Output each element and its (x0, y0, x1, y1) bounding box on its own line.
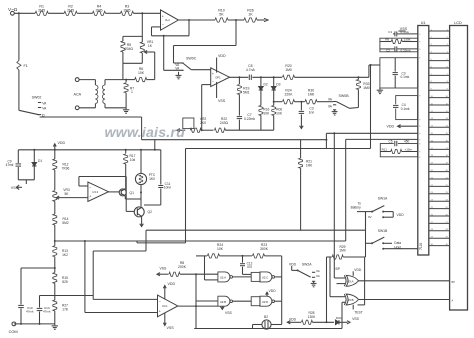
svg-text:VA: VA (316, 274, 320, 278)
svg-text:VSS: VSS (352, 317, 360, 321)
svg-text:200K: 200K (178, 265, 187, 269)
svg-text:TEST: TEST (354, 310, 362, 314)
svg-text:Q2: Q2 (148, 210, 153, 214)
svg-text:U2:D: U2:D (262, 300, 269, 304)
svg-text:U2:B: U2:B (220, 300, 226, 304)
svg-text:VDD: VDD (289, 262, 297, 266)
svg-text:U3:B: U3:B (347, 298, 353, 302)
svg-text:Q1: Q1 (130, 191, 135, 195)
svg-text:1M0: 1M0 (306, 163, 313, 167)
svg-text:0.1mk: 0.1mk (401, 107, 410, 111)
svg-text:C1: C1 (388, 30, 392, 34)
svg-text:D2: D2 (264, 83, 268, 87)
svg-text:0.1mk: 0.1mk (401, 30, 410, 34)
svg-text:0.1mk: 0.1mk (401, 75, 410, 79)
svg-text:SW2A: SW2A (302, 262, 312, 266)
svg-text:V~Ω: V~Ω (8, 7, 18, 12)
svg-text:1M0: 1M0 (308, 92, 315, 96)
svg-text:300K: 300K (260, 247, 269, 251)
svg-text:5K: 5K (219, 12, 224, 16)
svg-text:1: 1 (131, 90, 133, 94)
svg-text:VSS: VSS (225, 311, 233, 315)
svg-text:10K: 10K (263, 111, 270, 115)
svg-text:220K: 220K (285, 92, 294, 96)
svg-text:1nn: 1nn (309, 110, 315, 114)
svg-text:10nn: 10nn (164, 186, 172, 190)
svg-text:+: + (212, 72, 214, 76)
svg-text:U1: U1 (421, 21, 426, 25)
svg-text:BP: BP (452, 280, 456, 284)
svg-text:47mk: 47mk (26, 310, 34, 314)
svg-text:4.7nA: 4.7nA (246, 68, 256, 72)
svg-text:R9: R9 (385, 38, 389, 42)
svg-text:+: + (159, 309, 161, 313)
svg-text:OP1: OP1 (215, 75, 221, 79)
svg-text:VDD: VDD (168, 282, 176, 286)
svg-text:D3: D3 (276, 83, 280, 87)
svg-text:+: + (162, 14, 164, 18)
svg-text:1K2: 1K2 (62, 253, 68, 257)
svg-text:www.iais.ru: www.iais.ru (105, 125, 186, 141)
svg-text:F1: F1 (24, 64, 28, 68)
svg-text:−: − (212, 80, 214, 84)
svg-text:VDD: VDD (218, 54, 226, 58)
svg-text:+: + (89, 195, 91, 199)
svg-text:1M0: 1M0 (339, 249, 346, 253)
svg-text:B2: B2 (264, 315, 268, 319)
svg-text:VA: VA (316, 269, 320, 273)
svg-text:SW1B: SW1B (378, 229, 388, 233)
svg-text:1M0: 1M0 (363, 86, 370, 90)
svg-text:7K96: 7K96 (62, 166, 70, 170)
svg-text:1K0: 1K0 (149, 177, 155, 181)
svg-text:10K: 10K (138, 71, 145, 75)
svg-text:COM: COM (9, 329, 18, 334)
svg-text:U2:A: U2:A (220, 276, 226, 280)
svg-text:VDD: VDD (397, 213, 405, 217)
svg-text:−: − (89, 186, 91, 190)
svg-text:SW0B: SW0B (339, 94, 350, 98)
svg-text:U3:A: U3:A (347, 279, 353, 283)
svg-text:2M5: 2M5 (96, 9, 103, 13)
svg-text:2M5: 2M5 (38, 9, 45, 13)
svg-text:178: 178 (62, 307, 68, 311)
svg-text:VSS: VSS (160, 266, 168, 270)
svg-text:D1: D1 (38, 159, 42, 163)
svg-text:R11: R11 (382, 148, 388, 152)
svg-text:−: − (159, 300, 161, 304)
svg-text:LCD: LCD (454, 21, 462, 25)
svg-text:9V: 9V (368, 215, 372, 219)
svg-text:VDD: VDD (387, 125, 395, 129)
svg-text:−: − (162, 23, 164, 27)
svg-text:U3.1: U3.1 (162, 304, 168, 308)
svg-text:5M1: 5M1 (243, 90, 250, 94)
svg-text:VSS: VSS (167, 326, 175, 330)
svg-text:2M5: 2M5 (67, 9, 74, 13)
svg-text:SW1A: SW1A (378, 197, 388, 201)
svg-text:1K: 1K (148, 44, 153, 48)
svg-text:130K: 130K (404, 38, 412, 42)
svg-text:ACA: ACA (74, 92, 82, 96)
svg-text:130K: 130K (308, 315, 317, 319)
svg-text:Battery: Battery (351, 206, 362, 210)
svg-text:5M2: 5M2 (62, 221, 69, 225)
svg-text:U2:C: U2:C (262, 276, 269, 280)
svg-text:47mk: 47mk (43, 310, 51, 314)
svg-text:VDD: VDD (269, 289, 277, 293)
svg-text:SW0C: SW0C (186, 57, 197, 61)
svg-text:0.22mk: 0.22mk (244, 117, 255, 121)
svg-text:SW02: SW02 (32, 95, 42, 99)
svg-text:47mk: 47mk (6, 163, 14, 167)
svg-text:VSS: VSS (218, 99, 226, 103)
svg-text:VDD: VDD (58, 141, 66, 145)
svg-text:C2: C2 (386, 48, 390, 52)
svg-text:243Ω: 243Ω (220, 121, 229, 125)
svg-text:VDD: VDD (354, 268, 362, 272)
svg-text:10d: 10d (130, 158, 136, 162)
svg-text:A: A (452, 299, 454, 303)
svg-text:204Ω: 204Ω (125, 47, 134, 51)
svg-text:470: 470 (247, 265, 253, 269)
svg-text:10K: 10K (217, 247, 224, 251)
svg-text:D01: D01 (336, 316, 342, 320)
svg-text:2K0: 2K0 (200, 121, 206, 125)
svg-text:1K: 1K (248, 12, 253, 16)
svg-text:825: 825 (62, 280, 68, 284)
svg-text:2M5: 2M5 (124, 9, 131, 13)
svg-text:U3.3: U3.3 (92, 190, 98, 194)
svg-text:0.22mk: 0.22mk (401, 48, 412, 52)
svg-text:10K: 10K (276, 111, 283, 115)
svg-text:1M0: 1M0 (285, 68, 292, 72)
svg-text:IA-2: IA-2 (165, 18, 170, 22)
svg-text:+10m: +10m (405, 148, 413, 152)
